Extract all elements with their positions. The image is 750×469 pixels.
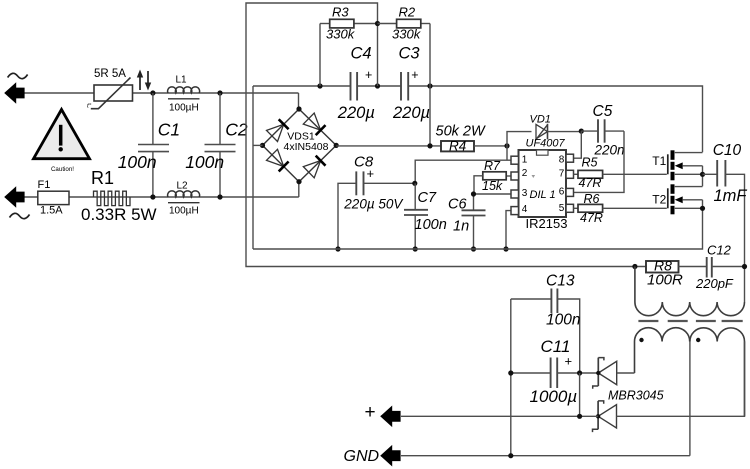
svg-text:1n: 1n xyxy=(453,219,469,235)
wire center tap to GND xyxy=(689,342,691,456)
svg-text:7: 7 xyxy=(559,169,565,180)
svg-text:6: 6 xyxy=(559,187,565,198)
wire VCC line xyxy=(415,146,511,183)
junction: C8+/C7/VCC xyxy=(412,181,417,186)
svg-text:C4: C4 xyxy=(351,45,372,63)
svg-text:IR2153: IR2153 xyxy=(526,216,568,231)
capacitor C1 xyxy=(118,93,180,197)
output arrow GND xyxy=(344,445,401,467)
junction: R3-R2 xyxy=(375,21,380,26)
capacitor C12 xyxy=(695,243,745,292)
svg-text:47R: 47R xyxy=(579,176,602,190)
svg-text:+: + xyxy=(367,166,375,181)
transformer secondary winding 2 xyxy=(690,328,745,416)
capacitor C10 xyxy=(703,142,748,302)
svg-text:4: 4 xyxy=(522,204,528,215)
svg-text:100µH: 100µH xyxy=(169,103,199,114)
caution triangle xyxy=(34,110,90,173)
junction: rail R3 xyxy=(317,83,322,88)
svg-text:UF4007: UF4007 xyxy=(526,138,566,150)
svg-text:R6: R6 xyxy=(584,192,600,206)
svg-text:15k: 15k xyxy=(482,179,503,193)
svg-text:C7: C7 xyxy=(418,190,437,206)
svg-text:50k 2W: 50k 2W xyxy=(436,124,486,140)
svg-text:Caution!: Caution! xyxy=(51,166,74,173)
junction: C1 bottom xyxy=(150,194,155,199)
junction: C6 rail xyxy=(471,246,476,251)
resistor R1 xyxy=(81,168,157,224)
svg-text:R4: R4 xyxy=(449,138,466,153)
inductor L2 xyxy=(168,181,200,217)
svg-text:R2: R2 xyxy=(399,5,416,20)
AC tilde top xyxy=(8,73,28,78)
svg-text:100µH: 100µH xyxy=(169,206,199,217)
fuse F1 xyxy=(38,179,70,217)
svg-text:0.33R 5W: 0.33R 5W xyxy=(81,205,157,224)
svg-text:47R: 47R xyxy=(580,211,603,225)
wire HV+ rail segment 3 xyxy=(408,86,702,152)
wire HV+ rail segment 1 xyxy=(253,85,351,87)
capacitor C5 xyxy=(581,103,624,158)
junction: T2 source xyxy=(700,206,705,211)
diode VD1 UF4007 xyxy=(507,114,581,150)
junction: C13/C11 right xyxy=(577,370,582,375)
svg-text:330k: 330k xyxy=(326,27,356,42)
svg-text:100n: 100n xyxy=(118,152,157,172)
resistor R8 xyxy=(646,258,707,289)
junction: C2 bottom xyxy=(217,194,222,199)
svg-text:t°: t° xyxy=(87,102,92,110)
wire pin4 COM xyxy=(506,211,511,249)
wire pin3 CT xyxy=(474,193,512,195)
junction: bridge+/R2 xyxy=(427,143,432,148)
wire bridge minus: left corner stub xyxy=(253,144,263,146)
svg-text:R5: R5 xyxy=(582,156,598,170)
svg-text:L1: L1 xyxy=(176,75,188,86)
svg-text:330k: 330k xyxy=(392,27,422,42)
resistor R5 xyxy=(574,156,667,191)
capacitor C8 xyxy=(338,154,415,250)
svg-text:C13: C13 xyxy=(546,273,575,290)
svg-text:C12: C12 xyxy=(707,243,732,258)
junction: primary left xyxy=(632,264,637,269)
junction: C12/C10/primary right xyxy=(742,264,747,269)
junction: R7/C6/pin3 xyxy=(471,191,476,196)
svg-text:8: 8 xyxy=(559,155,565,166)
arrows up-down xyxy=(137,70,151,91)
junction: pin4 rail xyxy=(503,246,508,251)
wire bridge plus xyxy=(336,86,441,146)
svg-text:C5: C5 xyxy=(593,103,613,120)
junction: T1 source xyxy=(700,172,705,177)
svg-text:5: 5 xyxy=(559,203,565,214)
junction: C7 rail xyxy=(413,246,418,251)
svg-text:100n: 100n xyxy=(185,152,224,172)
svg-text:C6: C6 xyxy=(448,197,467,213)
junction: R4 out xyxy=(504,143,509,148)
capacitor C4 xyxy=(337,45,375,123)
svg-text:+: + xyxy=(365,402,376,423)
capacitor C6 xyxy=(448,194,486,249)
svg-text:VD1: VD1 xyxy=(530,114,551,126)
junction: VD1/C5/pin8 xyxy=(579,129,584,134)
wire +output xyxy=(401,373,598,416)
wire top AC drop to bridge top xyxy=(298,93,300,109)
label MBR3045 xyxy=(608,389,664,403)
junction: GND/C11 left xyxy=(508,453,513,458)
svg-text:+: + xyxy=(365,68,372,82)
svg-text:+: + xyxy=(411,68,418,82)
capacitor C13 xyxy=(511,273,581,374)
bridge rectifier VDS1 4xIN5408 xyxy=(260,106,339,184)
transformer primary winding xyxy=(635,267,745,316)
svg-text:C1: C1 xyxy=(158,120,180,140)
junction: C2 top xyxy=(217,90,222,95)
ground rail xyxy=(253,208,703,249)
wire top AC line xyxy=(24,92,299,94)
wire bridge minus vertical xyxy=(252,86,254,249)
svg-text:L2: L2 xyxy=(177,181,189,192)
capacitor C2 xyxy=(185,93,248,197)
inductor L1 xyxy=(168,75,200,114)
output arrow + xyxy=(365,402,401,427)
svg-text:R1: R1 xyxy=(91,168,114,188)
diode D2 MBR3045 bottom xyxy=(593,342,745,433)
resistor R4 xyxy=(436,124,508,154)
svg-text:MBR3045: MBR3045 xyxy=(608,389,664,403)
svg-text:5R 5A: 5R 5A xyxy=(94,68,126,80)
svg-text:R7: R7 xyxy=(484,159,501,173)
wire pin6 VS xyxy=(574,131,625,192)
wire GND output xyxy=(401,455,690,457)
svg-text:220n: 220n xyxy=(594,143,625,158)
wire midpoint route xyxy=(246,3,646,267)
junction: +out xyxy=(577,414,582,419)
wire bottom AC line xyxy=(24,196,299,198)
junction: C8- rail xyxy=(335,246,340,251)
junction: C1 top xyxy=(150,90,155,95)
op-amp U1 IR2153 DIL package xyxy=(511,150,574,231)
svg-text:C2: C2 xyxy=(225,120,248,140)
svg-text:1.5A: 1.5A xyxy=(40,205,63,217)
capacitor C11 xyxy=(511,337,599,406)
wire C13/C11 left node xyxy=(510,299,512,456)
wire HV+ rail segment 2 xyxy=(357,85,401,87)
transistor T2 xyxy=(652,184,702,214)
svg-text:4xIN5408: 4xIN5408 xyxy=(284,141,329,153)
thermistor 5R 5A xyxy=(87,68,133,109)
wire bottom AC rise to bridge bottom xyxy=(298,182,300,197)
AC input arrow bottom xyxy=(4,186,24,208)
svg-text:220µ: 220µ xyxy=(337,104,375,122)
svg-text:2: 2 xyxy=(522,168,528,179)
svg-text:GND: GND xyxy=(344,448,380,465)
resistor R2 xyxy=(378,5,431,87)
svg-text:1mF: 1mF xyxy=(714,187,748,205)
svg-text:C3: C3 xyxy=(399,45,421,63)
transistor T1 xyxy=(652,150,702,180)
svg-text:C10: C10 xyxy=(713,142,742,159)
resistor R7 xyxy=(474,159,511,194)
wire half-bridge node xyxy=(702,174,704,186)
svg-text:R3: R3 xyxy=(332,5,349,20)
svg-text:220µ: 220µ xyxy=(392,104,430,122)
capacitor C7 xyxy=(404,183,447,249)
svg-text:T2: T2 xyxy=(652,193,666,207)
svg-text:+: + xyxy=(565,354,573,369)
transformer core xyxy=(638,320,742,322)
junction: C11 left xyxy=(508,370,513,375)
transformer secondary winding 1 xyxy=(635,328,690,373)
resistor R3 xyxy=(320,5,378,87)
resistor R6 xyxy=(574,192,667,225)
junction: rail R2/bridge+ xyxy=(427,83,432,88)
svg-text:1: 1 xyxy=(522,155,528,166)
capacitor C3 xyxy=(392,45,430,123)
svg-text:3: 3 xyxy=(522,188,528,199)
svg-text:100n: 100n xyxy=(546,312,580,329)
svg-text:T1: T1 xyxy=(652,154,666,168)
svg-text:DIL 1: DIL 1 xyxy=(530,189,556,201)
AC input arrow top xyxy=(4,82,24,104)
svg-text:220pF: 220pF xyxy=(695,276,734,291)
svg-text:F1: F1 xyxy=(38,179,51,191)
junction: rail midpoint xyxy=(375,83,380,88)
svg-text:220µ 50V: 220µ 50V xyxy=(343,197,404,212)
AC tilde bottom xyxy=(10,213,30,218)
svg-text:100n: 100n xyxy=(415,217,447,233)
svg-text:1000µ: 1000µ xyxy=(530,387,578,406)
diode D1 MBR3045 top xyxy=(593,358,635,389)
wire pin8 VB xyxy=(574,131,582,158)
svg-text:100R: 100R xyxy=(647,272,683,289)
